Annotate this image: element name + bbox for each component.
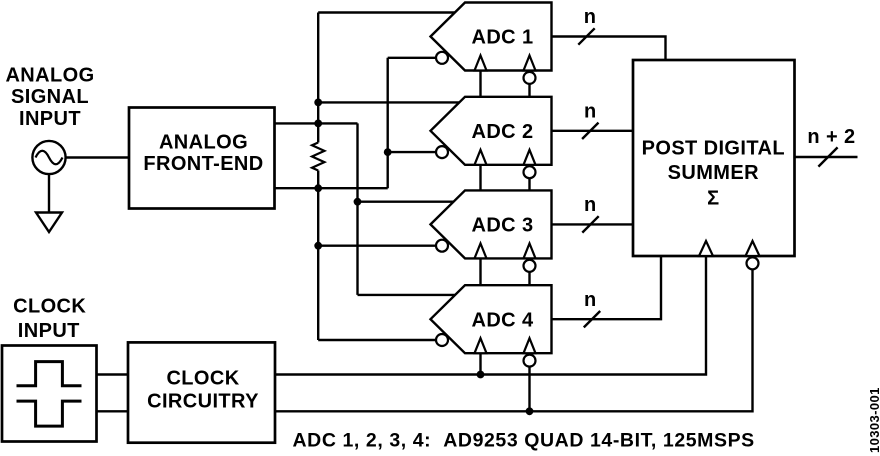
clock input label: [13, 296, 86, 342]
slash n ADC4: [584, 311, 600, 327]
wire to ADC3 upper input: [358, 200, 458, 202]
analog signal input label: [5, 64, 94, 130]
svg-text:FRONT-END: FRONT-END: [143, 153, 263, 175]
summer clock triangle 1: [699, 241, 713, 256]
wire clock right vertical segments: [528, 84, 530, 97]
wire to ADC1 bubble input: [388, 57, 436, 59]
wire rail2 vertical: [356, 123, 358, 295]
svg-text:Σ: Σ: [707, 187, 719, 209]
wire rail1 vertical upper: [317, 13, 319, 143]
clock pulse symbol -: [17, 401, 82, 426]
wire source to AFE: [66, 156, 129, 158]
slash n ADC1: [578, 28, 594, 44]
svg-text:SIGNAL: SIGNAL: [11, 86, 89, 108]
wire rail1 vertical lower: [317, 171, 319, 341]
svg-text:n + 2: n + 2: [807, 126, 855, 148]
clock circuitry box: [128, 342, 275, 442]
node: junction dots on rails: [314, 99, 391, 250]
ADC2 output bus: [552, 130, 634, 132]
wire to ADC3 bubble input: [318, 244, 436, 246]
svg-text:ADC 2: ADC 2: [471, 121, 533, 143]
svg-text:ADC 3: ADC 3: [471, 215, 533, 237]
svg-text:ADC 1, 2, 3, 4: AD9253 QUAD 1: ADC 1, 2, 3, 4: AD9253 QUAD 14-BIT, 125M…: [293, 430, 755, 452]
wire AFE- output: [275, 187, 388, 189]
svg-text:SUMMER: SUMMER: [668, 162, 759, 184]
svg-text:10303-001: 10303-001: [867, 387, 880, 453]
ADC 1: [431, 3, 552, 84]
wire to ADC2 bubble input: [388, 151, 436, 153]
ADC 3: [431, 190, 552, 271]
wire VIN- vertical: [387, 58, 389, 188]
analog front-end box: [129, 108, 275, 209]
wire clock rail A: [275, 256, 706, 375]
clock pulse symbol +: [17, 362, 82, 386]
svg-text:n: n: [584, 101, 597, 123]
wire source to ground: [48, 174, 50, 212]
wire to ADC1 upper input: [318, 11, 456, 13]
summer clock triangle 2: [746, 241, 760, 256]
ADC 2: [431, 97, 552, 178]
ground: [36, 213, 62, 233]
svg-text:ADC 1: ADC 1: [471, 27, 533, 49]
slash n ADC3: [582, 216, 598, 232]
svg-text:POST DIGITAL: POST DIGITAL: [642, 137, 785, 159]
svg-text:ANALOG: ANALOG: [159, 132, 248, 154]
ADC 4: [431, 285, 552, 366]
wire clock left vertical segments: [479, 71, 481, 97]
svg-text:INPUT: INPUT: [18, 320, 80, 342]
svg-text:CLOCK: CLOCK: [166, 367, 239, 389]
wire to ADC4 upper input: [358, 294, 461, 296]
svg-text:ADC 4: ADC 4: [471, 309, 533, 331]
svg-text:ANALOG: ANALOG: [5, 64, 94, 86]
summer output bus n+2: [795, 156, 858, 158]
svg-text:CLOCK: CLOCK: [13, 296, 86, 318]
wires clock input to clock circuitry: [97, 373, 129, 375]
clock input box: [2, 346, 97, 442]
svg-text:INPUT: INPUT: [19, 108, 81, 130]
ADC4 output bus: [552, 256, 662, 319]
summer clock bubble: [747, 257, 759, 269]
ADC3 output bus: [552, 223, 634, 225]
wire AFE+ output to rail2: [275, 122, 358, 124]
node: clock rail junctions: [477, 371, 534, 416]
signal source V1: [32, 141, 65, 174]
resistor R1: [312, 143, 324, 171]
svg-text:n: n: [584, 194, 597, 216]
post digital summer U2: [633, 60, 795, 256]
svg-text:n: n: [584, 6, 597, 28]
svg-text:n: n: [584, 289, 597, 311]
ADC1 output bus: [552, 37, 666, 61]
wire to ADC4 bubble input: [318, 339, 436, 341]
svg-text:CIRCUITRY: CIRCUITRY: [147, 390, 259, 412]
wire to ADC2 upper input: [318, 101, 460, 103]
sine symbol: [36, 151, 63, 165]
slash n ADC2: [582, 123, 598, 139]
wire clock rail B: [275, 269, 753, 411]
